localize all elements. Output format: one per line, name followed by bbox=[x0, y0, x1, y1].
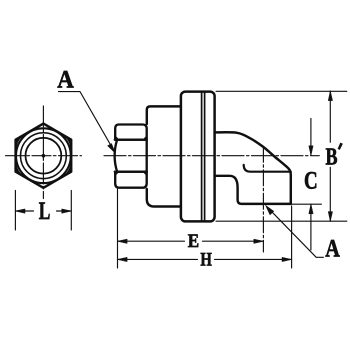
C dimension line upper segment with down arrow bbox=[310, 119, 312, 156]
leader line for A (bottom) bbox=[268, 208, 323, 257]
flange disc bbox=[181, 92, 215, 222]
E dimension line with arrows bbox=[118, 240, 264, 242]
C dimension line lower segment with up arrow bbox=[310, 204, 312, 250]
nut band line bottom bbox=[115, 171, 147, 173]
nut band corner ink top-left bbox=[115, 136, 119, 140]
main axis centerline bbox=[104, 155, 319, 157]
svg-text:E: E bbox=[188, 231, 199, 252]
hex nut corner fill bottom-left bbox=[16, 163, 25, 177]
svg-text:B: B bbox=[326, 145, 338, 171]
bore circle inner bbox=[26, 138, 62, 174]
nut band corner ink bottom-left bbox=[115, 172, 119, 176]
nut band line top bbox=[115, 139, 147, 141]
hex nut corner fill bottom-right bbox=[62, 163, 71, 177]
flange bottom extension line for B bbox=[216, 220, 347, 222]
nut band corner ink top-right bbox=[143, 136, 147, 140]
L extension line right bbox=[70, 191, 72, 231]
svg-text:A: A bbox=[325, 235, 340, 262]
side view hex nut top band bbox=[115, 125, 147, 140]
body cylinder bbox=[147, 106, 181, 206]
svg-text:A: A bbox=[57, 67, 74, 94]
L dimension line right segment with arrow bbox=[57, 210, 72, 212]
elbow outer profile bbox=[215, 132, 291, 204]
thread circle middle bbox=[21, 133, 67, 179]
hex nut corner fill top-right bbox=[62, 135, 71, 149]
hex nut front view: hexagon outline bbox=[16, 124, 72, 188]
flange top extension line for B bbox=[216, 90, 347, 92]
E H left extension line bbox=[117, 189, 119, 268]
side view hex nut bottom band bbox=[115, 172, 147, 188]
svg-text:C: C bbox=[304, 168, 318, 195]
L extension line left bbox=[14, 191, 16, 231]
hex nut front view: vertical centerline bbox=[42, 106, 44, 199]
B dimension line with arrows bbox=[329, 91, 331, 221]
label B prime mark bbox=[338, 143, 343, 150]
nut band corner ink bottom-right bbox=[143, 172, 147, 176]
svg-text:L: L bbox=[39, 198, 51, 225]
hex nut corner fill top-left bbox=[16, 135, 25, 149]
chamfer circle outer bbox=[16, 128, 71, 183]
leader line for A (top) bbox=[59, 92, 114, 150]
svg-text:H: H bbox=[200, 249, 212, 270]
center dot bbox=[42, 154, 46, 158]
flange groove double line bbox=[202, 92, 205, 220]
elbow inner step contour bbox=[244, 165, 291, 172]
port vertical centerline bbox=[262, 146, 264, 252]
L dimension line left segment with arrow bbox=[15, 210, 33, 212]
hex nut front view: horizontal centerline bbox=[6, 155, 82, 157]
H right extension line bbox=[291, 206, 293, 268]
side view hex nut middle band bbox=[115, 140, 147, 172]
elbow bottom face extension line for C bbox=[291, 203, 322, 205]
H dimension line with arrows bbox=[118, 258, 292, 260]
